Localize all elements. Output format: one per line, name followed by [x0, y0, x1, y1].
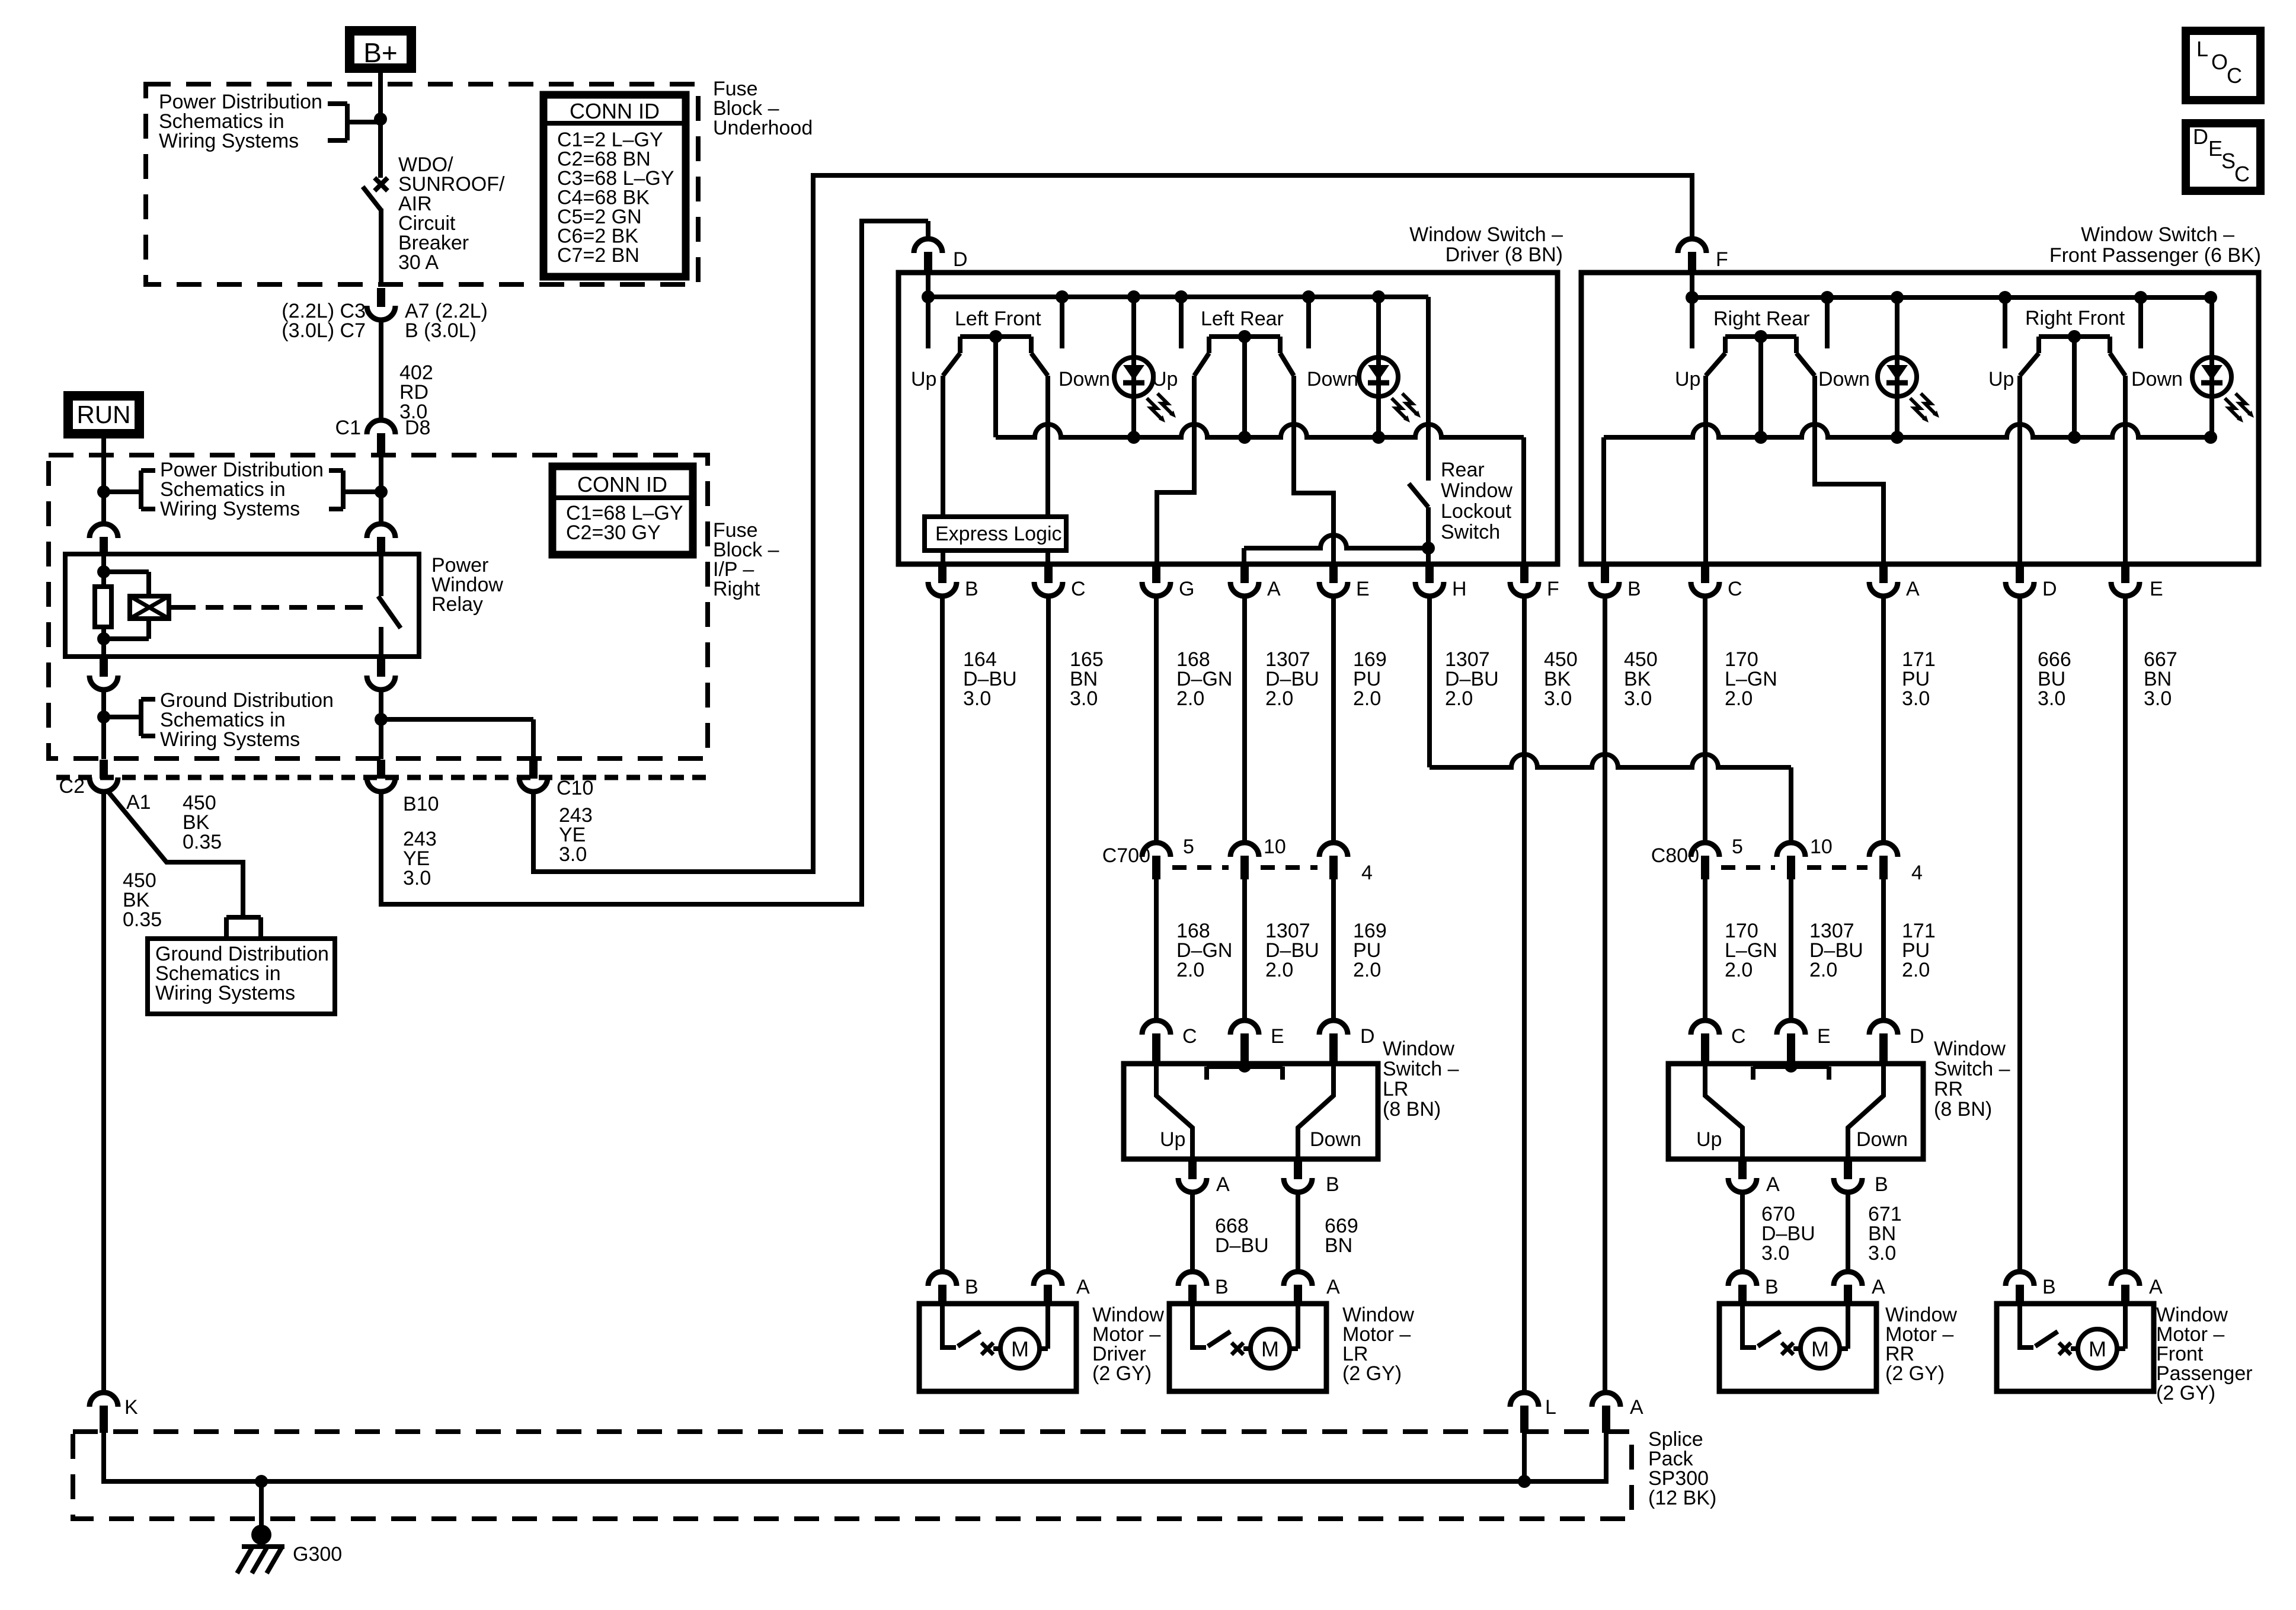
svg-text:0.35: 0.35: [123, 908, 162, 931]
wire pin D from RF: [2017, 376, 2022, 564]
wire B10 down and right (243 YE): [381, 221, 928, 904]
svg-text:Right: Right: [713, 578, 760, 600]
svg-text:E: E: [1817, 1025, 1831, 1048]
connector driver pin E: [1329, 565, 1338, 583]
svg-text:K: K: [124, 1396, 138, 1419]
wire 450 BK 0.35 diagonal to ground distribution: [107, 790, 243, 917]
window motor front passenger box: [1997, 1304, 2154, 1391]
svg-text:Switch –: Switch –: [1934, 1058, 2010, 1080]
wire 1307 D-BU H to C800: [1427, 596, 1432, 767]
connector C800 pin 10: [1777, 843, 1805, 857]
svg-text:3.0: 3.0: [1070, 687, 1098, 710]
C800 dashed link: [1721, 865, 1775, 870]
express logic box: [925, 517, 1066, 550]
window motor front passenger internal wiring and switch: [2020, 1304, 2033, 1347]
svg-text:3.0: 3.0: [1868, 1242, 1896, 1265]
svg-text:F: F: [1716, 248, 1728, 271]
svg-text:A: A: [1326, 1276, 1340, 1298]
relay switch lower wire: [379, 627, 383, 657]
svg-text:D: D: [953, 248, 968, 271]
svg-text:(8 BN): (8 BN): [1383, 1098, 1441, 1121]
wire 671 BN 3.0: [1846, 1192, 1850, 1272]
svg-text:5: 5: [1732, 836, 1743, 858]
svg-text:(2 GY): (2 GY): [1092, 1362, 1152, 1385]
wire branch to C10: [381, 717, 533, 722]
connector K: [89, 1393, 118, 1407]
connector D into driver switch: [914, 239, 942, 253]
svg-text:B: B: [1215, 1276, 1229, 1298]
connector driver pin B: [938, 565, 946, 583]
svg-text:2.0: 2.0: [1353, 687, 1381, 710]
svg-text:Window Switch –: Window Switch –: [2081, 223, 2234, 246]
connector LR motor A: [1284, 1272, 1312, 1286]
wire C800-4 down: [1881, 879, 1886, 1020]
LR down contact wire: [1298, 1064, 1334, 1159]
window motor RR M circle: [1801, 1329, 1840, 1368]
lockout horizontal to pin A: [1244, 535, 1428, 548]
wire 450 BK F down to splice L: [1522, 596, 1527, 1393]
svg-text:Window: Window: [1934, 1038, 2006, 1060]
wire C800-5 down: [1703, 879, 1707, 1020]
svg-text:A: A: [1267, 578, 1281, 600]
power window relay box: [65, 554, 419, 657]
splice bus node L: [1518, 1475, 1531, 1488]
fixed contact stub LF down: [1060, 297, 1064, 348]
LOC reference box: [2186, 31, 2260, 100]
conn id table I/P: [552, 466, 693, 555]
bracket left linking to run wire: [104, 489, 141, 494]
connector driver motor A: [1034, 1272, 1062, 1286]
node junction run feed: [97, 485, 110, 498]
svg-text:Driver (8 BN): Driver (8 BN): [1446, 244, 1563, 266]
connector A splice: [1592, 1393, 1620, 1407]
relay coil branch wiring: [101, 554, 106, 587]
wire C10 down and right (243 YE): [533, 175, 1692, 872]
svg-text:Down: Down: [1856, 1128, 1908, 1151]
passenger bus dots: [1686, 291, 1699, 304]
svg-text:2.0: 2.0: [1902, 959, 1930, 981]
svg-text:A: A: [1076, 1276, 1090, 1298]
wire pin C from RR: [1703, 376, 1708, 564]
svg-text:2.0: 2.0: [1176, 959, 1204, 981]
relay resistor: [95, 587, 111, 627]
wire 165 BN to motor: [1046, 596, 1051, 1272]
wire B+ down into underhood fuse block: [378, 68, 383, 178]
svg-text:B: B: [1765, 1276, 1779, 1298]
connector below relay left: [100, 658, 108, 677]
passenger common bus dots: [1754, 431, 1767, 444]
svg-text:30 A: 30 A: [398, 251, 439, 274]
svg-text:C7=2 BN: C7=2 BN: [557, 244, 639, 267]
wire passenger pin B: [1601, 437, 1606, 564]
LED1 wires: [1131, 300, 1136, 357]
connector C3/A7 (exit underhood box): [377, 288, 385, 307]
RR rocker bar: [1753, 1064, 1829, 1069]
fixed contact stub RR up: [1690, 297, 1694, 348]
right rear rocker common: [1758, 335, 1763, 437]
relay resistor bottom wire: [101, 627, 106, 657]
svg-text:5: 5: [1183, 836, 1194, 858]
svg-text:G: G: [1179, 578, 1194, 600]
svg-text:Down: Down: [1059, 368, 1110, 391]
connector below relay right: [377, 658, 385, 677]
window switch front passenger box: [1581, 273, 2259, 564]
window motor RR internal wiring and switch: [1742, 1304, 1756, 1347]
svg-text:(8 BN): (8 BN): [1934, 1098, 1992, 1121]
svg-text:Window Switch –: Window Switch –: [1409, 223, 1563, 246]
svg-text:LR: LR: [1383, 1078, 1408, 1100]
fixed contact stub LR down: [1306, 297, 1311, 348]
svg-text:3.0: 3.0: [403, 867, 431, 889]
connector driver pin F: [1520, 565, 1528, 583]
svg-text:3.0: 3.0: [963, 687, 991, 710]
window motor driver M circle: [1000, 1329, 1040, 1368]
window switch LR box: [1124, 1064, 1378, 1159]
connector C700 pin 4: [1319, 843, 1348, 857]
svg-text:Down: Down: [1307, 368, 1358, 391]
svg-text:C: C: [1728, 578, 1742, 600]
connector F into passenger switch: [1678, 239, 1706, 253]
connector into relay left: [89, 524, 118, 538]
wire pin E from LR: [1294, 376, 1334, 564]
relay coil box with X: [130, 596, 169, 619]
wire 450 BK passenger B to splice A: [1603, 596, 1607, 1393]
window motor LR M circle: [1251, 1329, 1290, 1368]
wire 670 D-BU 3.0: [1740, 1192, 1745, 1272]
svg-text:D: D: [2193, 124, 2208, 149]
connector RR switch E: [1777, 1020, 1805, 1035]
svg-text:C: C: [1731, 1025, 1746, 1048]
bracket linking callout to B+ wire: [328, 101, 347, 106]
svg-text:E: E: [1271, 1025, 1284, 1048]
svg-text:D: D: [2042, 578, 2057, 600]
LED4 wires: [2209, 300, 2214, 357]
svg-text:Up: Up: [1160, 1128, 1185, 1151]
svg-text:M: M: [2089, 1337, 2106, 1361]
wire pin A drop: [1242, 548, 1246, 564]
connector C700 pin 10: [1230, 843, 1259, 857]
node G300 tap: [255, 1475, 268, 1488]
svg-text:B: B: [965, 578, 978, 600]
relay switch upper wire: [379, 554, 383, 596]
svg-text:Up: Up: [911, 368, 936, 391]
driver switch supply bus: [928, 295, 1428, 299]
RR down contact wire: [1848, 1064, 1884, 1159]
window switch driver box: [898, 273, 1558, 564]
RR up contact wire: [1705, 1064, 1742, 1159]
bracket right linking to C1 wire: [343, 489, 381, 494]
wire run to relay: [101, 492, 106, 524]
svg-text:Switch –: Switch –: [1383, 1058, 1459, 1080]
wire pin G from LR: [1157, 376, 1194, 564]
rear lockout node: [1422, 542, 1435, 555]
svg-text:B10: B10: [403, 793, 439, 815]
fixed contact stub RF down: [2138, 297, 2143, 348]
connector driver pin G: [1152, 565, 1160, 583]
svg-text:3.0: 3.0: [2038, 687, 2065, 710]
svg-text:2.0: 2.0: [1265, 687, 1293, 710]
window motor driver box: [919, 1304, 1076, 1391]
window switch RR box: [1668, 1064, 1923, 1159]
wire C1 to relay: [379, 492, 383, 524]
wire 170 L-GN to C800: [1703, 596, 1707, 842]
wire 168 D-GN to C700: [1154, 596, 1159, 842]
relay coil dashed control line: [169, 605, 178, 610]
connector C700 pin 5: [1142, 843, 1171, 857]
LED2 wires: [1376, 300, 1381, 357]
fuse block I/P dashed box: [49, 455, 708, 758]
svg-text:Up: Up: [1152, 368, 1178, 391]
wire pin A from RR: [1815, 376, 1884, 564]
wire C1 into fuse block: [379, 454, 383, 492]
wire 669 BN: [1296, 1192, 1300, 1272]
wire D stub to bus: [926, 273, 930, 297]
svg-text:O: O: [2211, 50, 2228, 74]
left rear rocker: [1209, 334, 1280, 339]
svg-text:F: F: [1547, 578, 1559, 600]
svg-text:10: 10: [1810, 836, 1833, 858]
svg-text:S: S: [2221, 149, 2236, 173]
wire relay left to C2: [101, 689, 106, 759]
svg-text:B: B: [965, 1276, 978, 1298]
wire 1307 D-BU to C700: [1242, 596, 1247, 842]
svg-text:Switch: Switch: [1441, 521, 1500, 543]
svg-text:B: B: [2042, 1276, 2056, 1298]
window motor LR internal wiring and switch: [1192, 1304, 1206, 1347]
relay switch blade: [378, 596, 401, 628]
connector passenger pin E: [2121, 565, 2129, 583]
node B10/C10 branch: [375, 713, 388, 726]
node junction on B+ feed: [374, 113, 387, 126]
svg-text:C1: C1: [335, 417, 361, 439]
LR up contact wire: [1156, 1064, 1192, 1159]
connector LR pin B: [1294, 1161, 1302, 1179]
fuse block underhood dashed box: [146, 84, 698, 284]
wire C700-4 down: [1331, 879, 1336, 1020]
svg-text:Left Rear: Left Rear: [1201, 308, 1284, 330]
LED indicator 1: [1114, 357, 1153, 396]
window motor driver internal wiring and switch: [942, 1304, 956, 1347]
svg-text:Front Passenger (6 BK): Front Passenger (6 BK): [2049, 244, 2261, 267]
svg-text:2.0: 2.0: [1445, 687, 1473, 710]
svg-text:3.0: 3.0: [1544, 687, 1572, 710]
right rear rocker: [1725, 334, 1796, 339]
svg-text:Lockout: Lockout: [1441, 500, 1512, 523]
svg-text:4: 4: [1361, 862, 1373, 884]
svg-text:A: A: [1872, 1276, 1885, 1298]
svg-text:C: C: [1071, 578, 1086, 600]
connector C800 pin 5: [1691, 843, 1719, 857]
svg-text:BN: BN: [1325, 1234, 1352, 1257]
window motor RR box: [1719, 1304, 1876, 1391]
wire pin C from LF: [1045, 376, 1050, 564]
connector passenger motor B: [2006, 1272, 2034, 1286]
connector passenger motor A: [2111, 1272, 2140, 1286]
window motor LR box: [1169, 1304, 1326, 1391]
svg-text:Wiring Systems: Wiring Systems: [160, 728, 300, 751]
wire 171 PU to C800: [1881, 596, 1886, 842]
svg-text:E: E: [1356, 578, 1370, 600]
svg-text:A: A: [1216, 1173, 1230, 1196]
fixed contact stub RF up: [2003, 297, 2007, 348]
connector driver pin H: [1425, 565, 1434, 583]
fixed contact stub LR up: [1179, 297, 1184, 348]
passenger common bus with hops: [1604, 424, 2211, 437]
svg-text:A1: A1: [126, 791, 151, 814]
connector driver pin A: [1240, 565, 1249, 583]
svg-text:Right Rear: Right Rear: [1713, 308, 1810, 330]
wire C800-10 down: [1789, 879, 1793, 1020]
connector C10: [529, 760, 538, 779]
svg-text:B (3.0L): B (3.0L): [405, 319, 477, 342]
svg-text:G300: G300: [293, 1543, 342, 1566]
connector passenger pin C: [1701, 565, 1709, 583]
wire 668 D-BU: [1190, 1192, 1195, 1272]
svg-text:A: A: [2149, 1276, 2163, 1298]
wire relay right down: [379, 689, 383, 759]
svg-text:E: E: [2150, 578, 2163, 600]
svg-text:RR: RR: [1934, 1078, 1963, 1100]
svg-text:A: A: [1766, 1173, 1780, 1196]
svg-text:H: H: [1452, 578, 1467, 600]
right front rocker common: [2072, 335, 2077, 437]
svg-text:Relay: Relay: [431, 593, 483, 616]
svg-text:L: L: [2196, 37, 2208, 61]
node ground distribution junction: [97, 710, 110, 724]
LED indicator 3: [1878, 357, 1917, 396]
svg-text:(2 GY): (2 GY): [1885, 1362, 1945, 1385]
bracket into ground distribution box: [226, 915, 261, 920]
svg-text:D: D: [1910, 1025, 1924, 1048]
connector B10: [377, 760, 385, 779]
svg-text:2.0: 2.0: [1809, 959, 1837, 981]
svg-text:C: C: [2227, 63, 2242, 88]
ground G300 symbol: [251, 1525, 271, 1545]
wire F stub to bus: [1690, 273, 1694, 297]
svg-text:2.0: 2.0: [1353, 959, 1381, 981]
wire H horizontal to C800-10: [1430, 754, 1791, 767]
wire to G300: [259, 1481, 264, 1529]
circuit breaker contact x: [375, 178, 388, 191]
connector LR switch C: [1142, 1020, 1171, 1035]
connector LR switch E: [1230, 1020, 1259, 1035]
svg-text:B: B: [1627, 578, 1641, 600]
battery feed B+ box: [350, 31, 411, 68]
connector passenger pin B: [1601, 565, 1609, 583]
svg-text:Up: Up: [1988, 368, 2014, 391]
connector RR pin A: [1738, 1161, 1747, 1179]
fixed contact stub RR down: [1825, 297, 1830, 348]
svg-text:Window: Window: [1383, 1038, 1454, 1060]
svg-text:3.0: 3.0: [1902, 687, 1930, 710]
svg-text:C: C: [1182, 1025, 1197, 1048]
svg-text:M: M: [1811, 1337, 1829, 1361]
svg-text:(3.0L) C7: (3.0L) C7: [282, 319, 366, 342]
connector LR motor B: [1178, 1272, 1207, 1286]
svg-text:C2=30 GY: C2=30 GY: [566, 521, 661, 544]
svg-text:(12 BK): (12 BK): [1648, 1487, 1716, 1509]
svg-text:Window: Window: [1441, 479, 1512, 502]
svg-text:Down: Down: [2131, 368, 2183, 391]
svg-text:Wiring Systems: Wiring Systems: [155, 982, 295, 1004]
wire 667 BN to motor: [2123, 596, 2128, 1272]
svg-text:Rear: Rear: [1441, 459, 1485, 481]
svg-text:Right Front: Right Front: [2025, 307, 2125, 329]
splice pack ground bus: [104, 1432, 1606, 1481]
wire 164 D-BU to motor: [940, 596, 945, 1272]
connector C1/D8 into I/P fuse block: [367, 420, 395, 434]
svg-text:RUN: RUN: [77, 401, 131, 428]
wire breaker to box edge: [379, 209, 383, 286]
LR rocker bar: [1207, 1064, 1283, 1069]
connector passenger pin D: [2016, 565, 2024, 583]
svg-text:Wiring Systems: Wiring Systems: [159, 130, 299, 152]
LED indicator 4: [2192, 357, 2231, 396]
svg-text:Up: Up: [1696, 1128, 1722, 1151]
wire D feed drop: [926, 221, 930, 239]
svg-text:3.0: 3.0: [1761, 1242, 1789, 1265]
svg-text:C800: C800: [1651, 844, 1699, 867]
wire RUN down into I/P fuse block: [101, 434, 106, 492]
svg-text:Left Front: Left Front: [955, 308, 1041, 330]
connector LR switch D: [1319, 1020, 1348, 1035]
conn id table underhood: [543, 95, 686, 277]
connector RR motor B: [1728, 1272, 1757, 1286]
wire 666 BU to motor: [2017, 596, 2022, 1272]
svg-text:B: B: [1326, 1173, 1339, 1196]
left front rocker: [960, 334, 1031, 339]
svg-text:M: M: [1261, 1337, 1279, 1361]
svg-text:C: C: [2234, 162, 2250, 186]
svg-text:Express Logic: Express Logic: [935, 523, 1062, 545]
rear lockout lower wire: [1426, 507, 1431, 564]
svg-text:L: L: [1545, 1396, 1556, 1419]
left rear rocker common: [1242, 337, 1247, 437]
connector C800 pin 4: [1869, 843, 1898, 857]
svg-text:3.0: 3.0: [1624, 687, 1652, 710]
svg-text:Down: Down: [1310, 1128, 1361, 1151]
svg-text:2.0: 2.0: [1265, 959, 1293, 981]
bus junction dots: [922, 290, 935, 303]
connector face dashed line (I/P bottom): [56, 775, 708, 780]
svg-text:Wiring Systems: Wiring Systems: [160, 498, 300, 520]
connector RR switch C: [1691, 1020, 1719, 1035]
svg-text:CONN ID: CONN ID: [577, 472, 667, 497]
svg-text:E: E: [2208, 136, 2223, 161]
wire C700-5 down: [1154, 879, 1159, 1020]
connector driver motor B: [928, 1272, 957, 1286]
svg-text:D: D: [1360, 1025, 1375, 1048]
wire L to bus: [1522, 1432, 1527, 1481]
fixed contact stub LF up: [926, 297, 930, 348]
rear lockout feed wire: [1426, 297, 1431, 481]
LED3 wires: [1895, 300, 1900, 357]
svg-text:Underhood: Underhood: [713, 117, 813, 139]
svg-text:2.0: 2.0: [1176, 687, 1204, 710]
wire pin B from LF: [941, 376, 945, 564]
connector LR pin A: [1188, 1161, 1197, 1179]
svg-text:Up: Up: [1675, 368, 1700, 391]
svg-text:2.0: 2.0: [1725, 687, 1753, 710]
connector RR switch D: [1869, 1020, 1898, 1035]
wire 169 PU to C700: [1331, 596, 1336, 842]
bracket linking ground callout: [104, 715, 141, 719]
svg-text:D8: D8: [405, 417, 430, 439]
connector driver pin C: [1044, 565, 1053, 583]
passenger supply bus: [1692, 295, 2211, 300]
svg-text:3.0: 3.0: [559, 843, 587, 866]
svg-text:2.0: 2.0: [1725, 959, 1753, 981]
